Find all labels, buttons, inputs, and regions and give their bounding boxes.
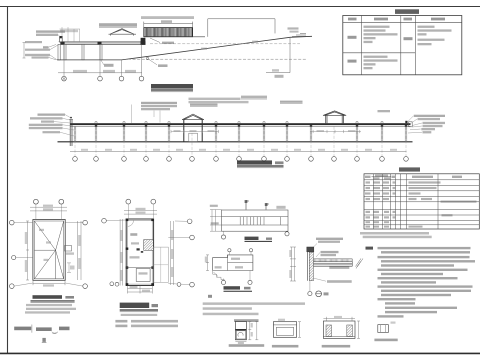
drain dim right lower	[67, 263, 71, 273]
Y-1 label	[272, 345, 299, 348]
canopy slab band	[61, 42, 146, 44]
rain outlet circle	[146, 57, 149, 60]
outer rect	[222, 210, 289, 231]
left parapet end	[60, 36, 63, 42]
base line under grille	[144, 36, 205, 38]
ground step detail bottom-left	[213, 271, 225, 280]
J-8 label	[229, 344, 265, 347]
title 1-1 section	[151, 84, 193, 89]
parapet flashing label	[99, 23, 137, 26]
left end post	[58, 44, 60, 60]
ground line	[58, 141, 413, 143]
row1 label	[348, 36, 357, 39]
axis circle B	[98, 76, 103, 81]
house1 dim line	[171, 130, 219, 133]
dashed datum line at slab level	[150, 43, 300, 45]
note item lines	[378, 247, 471, 249]
top axis circles	[126, 199, 131, 204]
schedule column lines	[374, 174, 439, 229]
elevation left leader lines	[54, 115, 74, 136]
J-8 bottom dim	[235, 340, 246, 342]
elevation right labels	[414, 115, 445, 117]
connector bracket	[52, 332, 58, 334]
GC1 label	[374, 339, 397, 342]
axis circle C	[119, 76, 124, 81]
outline	[213, 255, 253, 271]
ridge diagonals	[34, 221, 63, 279]
axis circles row	[73, 157, 78, 162]
interior small texts	[130, 256, 140, 258]
beam bracket teeth under fascia	[95, 125, 407, 127]
axis circle A	[62, 76, 67, 81]
1% slope labels	[201, 48, 207, 50]
bottom axis circles	[221, 280, 225, 284]
wall hatch strip	[309, 252, 313, 281]
right leader labels	[321, 251, 339, 253]
fascia dark band	[70, 123, 411, 125]
insulation hatch band	[313, 259, 352, 261]
right end detail	[405, 121, 407, 123]
step connector blob	[141, 38, 146, 42]
sheet border bottom	[0, 352, 480, 354]
small top dims left of slab	[60, 27, 81, 42]
underlined note right	[241, 96, 267, 99]
sheet border left	[7, 6, 9, 354]
door arc	[128, 220, 134, 226]
top-center labels	[141, 102, 177, 104]
level label top right	[276, 206, 285, 208]
shaft hatched box	[144, 240, 154, 251]
slash mark	[356, 262, 361, 269]
table title	[395, 9, 419, 14]
row2 label	[348, 60, 357, 63]
header sub split	[372, 176, 392, 178]
bottom axis circles	[221, 235, 225, 239]
junction extension line	[266, 37, 290, 72]
leader lines	[49, 35, 61, 60]
small label right of house2	[378, 110, 391, 112]
drain label near post C	[104, 64, 114, 67]
schedule cell texts	[365, 181, 477, 227]
left dim chain	[290, 247, 296, 281]
left dim chain	[120, 219, 123, 286]
dashed datum line low	[128, 58, 307, 60]
wall axis bubble below	[308, 292, 312, 296]
note under schedule	[360, 232, 429, 235]
title south elevation	[245, 237, 259, 240]
bottom axis circles	[110, 282, 114, 286]
two note lines	[115, 320, 127, 323]
subtitle line	[121, 314, 158, 316]
wall verticals	[307, 247, 309, 281]
left dim chain	[26, 221, 29, 280]
slab layer lines	[313, 259, 352, 266]
bottom label	[327, 280, 352, 283]
pound mark	[42, 338, 45, 342]
ground slope line	[122, 36, 313, 60]
right col content	[418, 26, 435, 28]
table frame	[343, 16, 462, 75]
top axis circles	[34, 199, 39, 204]
title 2-2 section	[237, 160, 284, 167]
section cut mark 2	[246, 201, 249, 210]
schedule row lines	[364, 180, 479, 225]
dim above grille	[144, 23, 193, 25]
title back elevation	[224, 286, 241, 289]
notes under section	[189, 98, 241, 100]
schedule frame	[364, 174, 479, 229]
top dim rows	[30, 207, 67, 211]
far-left vertical dim	[23, 43, 26, 59]
midline	[228, 255, 253, 271]
steel item 3	[59, 327, 70, 331]
right dim chains	[171, 221, 174, 285]
canopy dim line	[58, 45, 142, 77]
wall column blobs	[126, 219, 154, 286]
plan outer walls	[126, 219, 153, 286]
bottom dim	[33, 280, 65, 285]
left leader labels of section 1-1	[36, 30, 65, 32]
elevation left labels	[38, 114, 66, 116]
top beam blob	[307, 247, 314, 252]
steps label above	[141, 16, 194, 19]
schedule title	[399, 167, 420, 171]
steel item 2	[36, 327, 52, 331]
Y-1 right dim	[298, 322, 301, 338]
stubs above fascia	[95, 122, 383, 124]
grille hatch block	[144, 28, 193, 37]
overall dim bracket	[208, 19, 275, 37]
right annex porch	[154, 247, 169, 282]
Y-2 right dim	[357, 321, 360, 338]
slope junction labels	[288, 27, 299, 29]
break mark	[356, 259, 364, 267]
P.V label	[130, 233, 137, 236]
sanshui label	[158, 64, 168, 67]
right dim chain	[78, 221, 82, 280]
elevation right leaders	[408, 116, 423, 133]
columns at axes	[74, 126, 407, 141]
waterproof label	[329, 267, 349, 269]
ground line under canopy	[57, 59, 122, 61]
left dim chain	[210, 210, 222, 232]
interior partition	[126, 267, 153, 269]
drain box right	[65, 246, 72, 252]
shuoming label	[366, 247, 374, 250]
gutter label above J-8	[234, 319, 259, 322]
title roof plan	[33, 295, 63, 299]
beam section blobs	[61, 41, 146, 45]
window mullions	[240, 217, 280, 225]
left end wall	[70, 120, 72, 146]
axis center dashed lines	[75, 127, 406, 157]
house2 dim line	[310, 130, 361, 133]
inner room	[136, 269, 150, 282]
Y-2 top dim	[323, 317, 355, 321]
canopy note above house2	[280, 101, 303, 103]
mid row line	[343, 52, 416, 54]
row1 content lines	[364, 26, 390, 28]
tiny steps at junction	[292, 34, 306, 37]
dim numbers	[81, 149, 88, 151]
divider tick	[31, 325, 33, 333]
detail J-8 gutter	[235, 321, 246, 339]
plan outer walls	[33, 220, 65, 281]
header texts	[348, 18, 357, 21]
section cut mark 3	[266, 204, 269, 210]
guard house 1	[184, 120, 202, 142]
interior dark specks	[137, 248, 140, 250]
sub line under fascia	[70, 125, 411, 127]
detail GC1	[378, 325, 389, 333]
top cut circles	[228, 249, 231, 252]
top dim rows	[124, 210, 157, 214]
title guard room plan	[120, 303, 150, 308]
header row line	[343, 21, 462, 23]
horizontal bands	[222, 217, 289, 225]
J-8 right dims	[248, 321, 258, 339]
header text smudges	[365, 176, 371, 178]
detail number bubble	[316, 291, 322, 297]
big dim line	[70, 150, 407, 152]
steel item 1	[14, 327, 31, 331]
left dim chain	[206, 255, 209, 271]
ramp note above house1	[190, 104, 218, 106]
roof house 2	[326, 115, 344, 123]
column lines	[361, 16, 415, 75]
notes zhu under details	[208, 295, 212, 298]
axis circle D	[139, 76, 144, 81]
roof plan note lines	[26, 304, 72, 306]
Y-2 label	[322, 345, 351, 348]
side axis circles	[102, 218, 107, 223]
L48x4 angle label	[162, 42, 174, 44]
row2 content lines	[364, 56, 388, 58]
detail Y-1	[273, 322, 296, 338]
posts under slab	[64, 44, 66, 60]
inner texts	[215, 266, 222, 268]
pitched roof beyond	[109, 29, 137, 36]
detail Y-2	[323, 321, 355, 338]
slope 2% labels	[39, 229, 44, 231]
top leader labels	[316, 238, 343, 240]
side axis circles	[10, 220, 15, 225]
Y-1 top dim	[278, 319, 285, 321]
sheet border top	[0, 6, 480, 8]
bottom dim rows	[128, 286, 153, 294]
mid col label	[404, 37, 413, 40]
